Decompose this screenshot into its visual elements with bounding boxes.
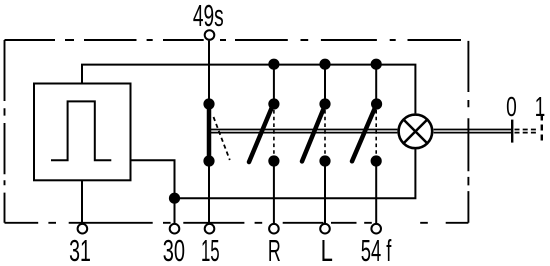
switch S4 top contact dot (371, 98, 382, 109)
junction dot R column on top bus (268, 59, 279, 70)
wire: stub R column top (273, 65, 275, 104)
switch S2 top contact dot (268, 98, 279, 109)
pulse waveform symbol inside flasher unit (51, 101, 111, 160)
svg-text:31: 31 (69, 235, 91, 266)
switch S2 alternate position (dashed) (273, 110, 275, 155)
mechanical linkage double line (left of lamp) (209, 130, 397, 133)
enclosure boundary bottom (dash-dot) (5, 222, 469, 224)
svg-text:0: 0 (506, 91, 517, 123)
terminal R circle (269, 224, 279, 234)
terminal 15 circle (205, 224, 215, 234)
wire: flasher box bottom to terminal 31 (81, 180, 83, 223)
enclosure boundary top (dash-dot) (5, 39, 462, 41)
switch S4 blade (open, 54f) (352, 104, 377, 161)
mechanical linkage double line (right of lamp) (434, 130, 513, 133)
terminal 30 circle (170, 224, 180, 234)
svg-text:L: L (321, 234, 333, 266)
terminal 54f circle (371, 224, 381, 234)
wire: switch 1 bottom contact to terminal 15 (208, 161, 210, 223)
wire: stub 54f column top (375, 65, 377, 104)
wire: flasher box output to terminal 30 (131, 160, 175, 223)
switch S3 bottom contact dot (319, 155, 330, 166)
svg-text:R: R (268, 234, 281, 266)
indicator lamp E1 (399, 115, 433, 149)
enclosure boundary left (dash-dot) (4, 40, 6, 223)
junction dot node 30 on bottom bus (169, 193, 180, 204)
flasher unit box U1 (34, 84, 131, 181)
position indicator solid tick (0) (511, 120, 513, 143)
wire: bottom bus from node 30 junction to lamp bottom (175, 150, 416, 199)
enclosure boundary right (dash-dot) (467, 41, 469, 223)
switch S3 alternate position (dashed) (324, 110, 326, 155)
terminal L circle (320, 224, 330, 234)
junction dot L column on top bus (319, 59, 330, 70)
switch S1 top contact dot (203, 98, 214, 109)
svg-text:49s: 49s (193, 0, 224, 33)
position indicator dashed tick (1) (541, 115, 543, 143)
wire: stub L column top (324, 65, 326, 104)
switch S2 blade (open, R) (249, 104, 273, 162)
terminal 31 circle (78, 224, 88, 234)
switch S4 alternate position (dashed) (375, 110, 377, 155)
svg-text:15: 15 (201, 235, 220, 266)
switch S2 bottom contact dot (268, 155, 279, 166)
svg-text:30: 30 (163, 235, 185, 266)
wire: switch 4 bottom contact to terminal 54f (375, 161, 377, 223)
junction dot 54f column on top bus (371, 59, 382, 70)
switch S3 blade (open, L) (302, 104, 326, 161)
wire: 49s terminal down to switch 1 top contact (208, 41, 210, 104)
switch S1 blade (closed, 49s-15) (207, 104, 212, 161)
wire: switch 2 bottom contact to terminal R (273, 161, 275, 223)
wire: switch 3 bottom contact to terminal L (324, 161, 326, 223)
svg-text:1: 1 (535, 91, 546, 123)
switch S3 top contact dot (319, 98, 330, 109)
switch S4 bottom contact dot (371, 155, 382, 166)
wire: top bus from flasher box to lamp (82, 65, 415, 114)
switch S1 bottom contact dot (203, 155, 214, 166)
svg-text:54 f: 54 f (361, 234, 392, 266)
switch S1 alternate position (dashed) (214, 117, 230, 160)
mechanical linkage dashed continuation (515, 130, 539, 133)
terminal 49s circle (205, 30, 215, 40)
indicator lamp X cross (404, 120, 428, 144)
